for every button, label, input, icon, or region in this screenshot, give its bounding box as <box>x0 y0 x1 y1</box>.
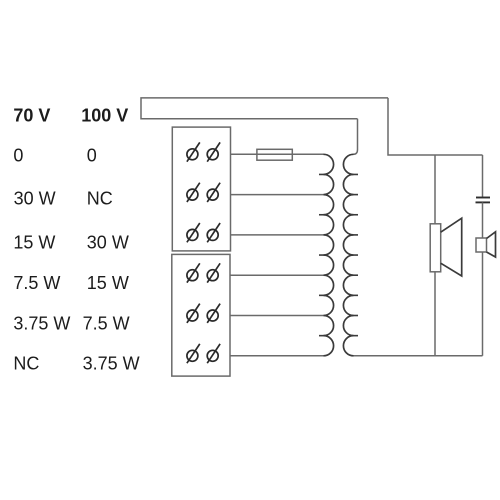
screw terminal 2R <box>207 183 220 202</box>
wire: tweeter branch lower <box>482 252 484 356</box>
screw terminal 1L <box>187 142 200 161</box>
svg-text:15 W: 15 W <box>87 273 129 293</box>
secondary cusp tick 4 <box>349 234 358 236</box>
speaker LS2 (tweeter) cone <box>487 232 496 257</box>
capacitor C1 plate bottom <box>476 201 491 203</box>
primary cusp tick 4 <box>319 294 328 296</box>
wire: tweeter branch upper <box>482 155 484 197</box>
svg-text:15 W: 15 W <box>13 232 55 252</box>
screw terminal 1R <box>207 142 220 161</box>
secondary cusp tick 9 <box>349 335 358 337</box>
wire: common feed down to secondary top <box>354 119 358 155</box>
wire: tap 1 (0) with fuse <box>231 153 324 155</box>
speaker LS2 (tweeter) coil <box>476 238 487 252</box>
svg-text:0: 0 <box>87 146 97 166</box>
terminal block TB2 (lower, 100V taps) <box>172 254 230 376</box>
primary cusp tick 3 <box>319 254 328 256</box>
capacitor C1 plate top <box>476 197 490 199</box>
svg-text:0: 0 <box>13 146 23 166</box>
wire: woofer branch bottom <box>434 272 436 356</box>
speaker LS1 (woofer) coil <box>430 224 441 272</box>
wire: tap 5 (3.75W) <box>231 315 324 317</box>
svg-text:30 W: 30 W <box>14 188 56 208</box>
wire: secondary bottom to speakers <box>354 355 483 357</box>
svg-text:7.5 W: 7.5 W <box>13 273 60 293</box>
transformer T1 secondary winding <box>343 154 353 355</box>
screw terminal 4L <box>187 263 200 282</box>
wire: tap 6 (common) <box>231 355 324 357</box>
secondary cusp tick 3 <box>349 214 358 216</box>
screw terminal 2L <box>187 183 200 202</box>
wire: 70V feed down right side <box>388 98 483 155</box>
svg-text:7.5 W: 7.5 W <box>83 313 130 333</box>
primary cusp tick 2 <box>319 214 328 216</box>
wire: capacitor to tweeter <box>482 202 484 238</box>
transformer T1 primary winding <box>324 154 334 355</box>
primary cusp tick 1 <box>319 173 328 175</box>
wire: tap 3 (15W) <box>231 234 324 236</box>
secondary cusp tick 2 <box>349 194 358 196</box>
label: column headers <box>13 105 128 125</box>
screw terminal 5L <box>187 304 200 323</box>
svg-text:100 V: 100 V <box>81 105 128 125</box>
svg-text:NC: NC <box>87 188 113 208</box>
screw terminal 4R <box>207 263 220 282</box>
wire: tap 2 (30W) <box>231 194 324 196</box>
fuse F1 <box>257 149 292 160</box>
secondary cusp tick 8 <box>349 315 358 317</box>
terminal block TB1 (upper, 70V taps) <box>172 127 230 251</box>
screw terminal 6R <box>207 344 220 363</box>
svg-text:3.75 W: 3.75 W <box>83 354 140 374</box>
svg-text:NC: NC <box>13 354 39 374</box>
wire: woofer branch top <box>434 155 436 224</box>
secondary cusp tick 7 <box>349 294 358 296</box>
screw terminal 3L <box>187 223 200 242</box>
svg-text:70 V: 70 V <box>13 105 50 125</box>
secondary cusp tick 6 <box>349 274 358 276</box>
screw terminal 3R <box>207 223 220 242</box>
primary cusp tick 5 <box>319 335 328 337</box>
secondary cusp tick 5 <box>349 254 358 256</box>
svg-text:3.75 W: 3.75 W <box>13 313 70 333</box>
screw terminal 5R <box>207 304 220 323</box>
svg-text:30 W: 30 W <box>87 232 129 252</box>
wire: 70V/100V input bus (top loop) <box>141 98 388 119</box>
wire: tap 4 (7.5W) <box>231 274 324 276</box>
speaker LS1 (woofer) cone <box>441 218 462 276</box>
screw terminal 6L <box>187 344 200 363</box>
secondary cusp tick 1 <box>349 173 358 175</box>
